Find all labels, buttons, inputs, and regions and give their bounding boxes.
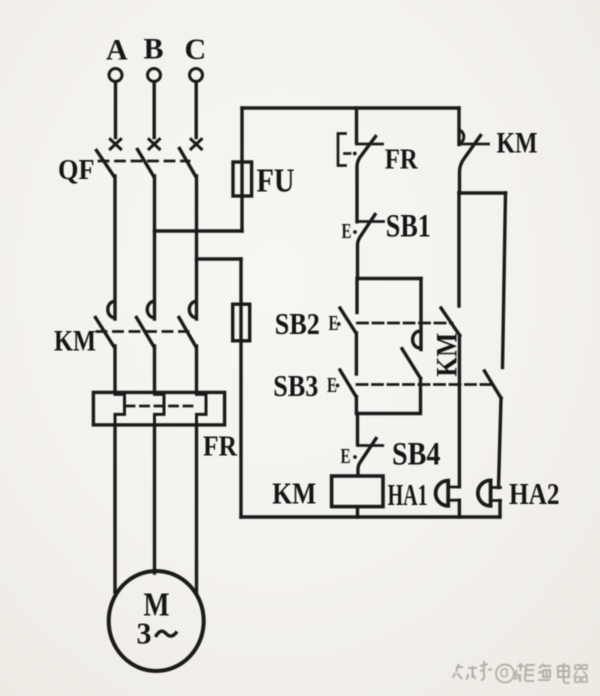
svg-text:3: 3 <box>137 616 152 651</box>
svg-text:B: B <box>144 33 164 66</box>
svg-text:QF: QF <box>58 155 95 186</box>
svg-text:C: C <box>185 33 207 66</box>
svg-text:FU: FU <box>257 163 295 200</box>
svg-text:KM: KM <box>431 333 464 377</box>
svg-text:A: A <box>106 34 128 67</box>
svg-text:FR: FR <box>385 143 419 175</box>
svg-text:SB2: SB2 <box>275 306 320 341</box>
svg-text:KM: KM <box>272 476 316 511</box>
svg-text:KM: KM <box>497 126 538 159</box>
svg-text:E: E <box>327 373 337 397</box>
svg-text:SB3: SB3 <box>273 368 318 403</box>
svg-text:HA1: HA1 <box>388 477 428 512</box>
svg-text:HA2: HA2 <box>509 476 560 511</box>
svg-text:FR: FR <box>203 430 238 462</box>
svg-text:E: E <box>342 219 352 243</box>
svg-text:SB1: SB1 <box>386 209 431 245</box>
svg-text:SB4: SB4 <box>392 437 441 473</box>
svg-text:E: E <box>329 311 339 335</box>
svg-text:E: E <box>341 444 351 468</box>
svg-text:KM: KM <box>54 324 96 357</box>
